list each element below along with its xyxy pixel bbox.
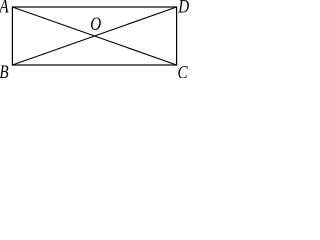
svg-text:O: O <box>90 14 101 35</box>
svg-text:A: A <box>0 0 9 17</box>
svg-text:D: D <box>177 0 189 17</box>
svg-text:B: B <box>0 62 9 78</box>
svg-text:C: C <box>178 62 189 78</box>
